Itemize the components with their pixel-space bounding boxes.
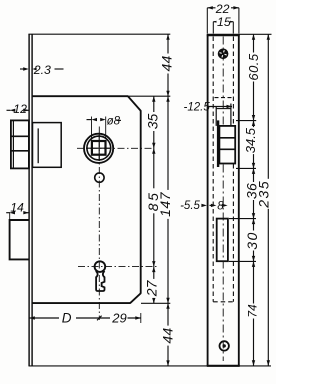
top extension line from faceplate top	[28, 33, 170, 35]
dimension 15 (case width)	[213, 15, 233, 34]
dimension 12 (latch protrusion)	[7, 102, 29, 116]
latch body box (front view)	[219, 126, 235, 164]
svg-text:74: 74	[246, 304, 260, 318]
latch pocket top shelf	[216, 108, 231, 110]
latch pocket left wall	[215, 106, 217, 126]
svg-text:30: 30	[244, 231, 260, 250]
svg-text:60.5: 60.5	[246, 53, 261, 81]
dimension column 35/85/27	[143, 96, 161, 303]
lock case bottom-right chamfer	[130, 293, 141, 303]
horizontal centerline through keyhole (dash-dot)	[78, 266, 157, 268]
dimension -12.5 (leader into plate)	[184, 102, 233, 114]
faceplate outer edge line	[28, 34, 30, 366]
dimension -5.5 and 8 (deadbolt position/width)	[180, 200, 228, 213]
bottom screw (ring with center)	[220, 341, 229, 350]
svg-text:27: 27	[143, 279, 159, 297]
spindle crosshair	[98, 134, 100, 161]
dimension column 44/147/44	[157, 34, 175, 366]
svg-text:22: 22	[215, 2, 230, 16]
extension line at deadbolt bottom (y 261.4)	[229, 260, 256, 262]
bottom long extension line across both views	[29, 365, 271, 367]
svg-text:15: 15	[217, 15, 231, 29]
svg-text:147: 147	[157, 191, 173, 217]
latch face bar (front view)	[217, 120, 219, 167]
latch pocket right wall	[230, 104, 232, 126]
dimension 235 (overall plate height)	[256, 34, 272, 366]
front plate right edge	[238, 34, 240, 366]
keyhole circle	[95, 261, 106, 272]
dashed case outline right	[232, 37, 234, 302]
dimension phi8 (square hole)	[87, 116, 122, 140]
svg-text:2.3: 2.3	[33, 63, 51, 77]
dashed case outline bottom	[213, 301, 233, 303]
dashed case outline left	[212, 37, 214, 302]
svg-text:35: 35	[145, 114, 161, 130]
front plate left edge	[207, 34, 209, 366]
front plate top edge	[207, 34, 240, 37]
dimension 22 (plate width)	[207, 1, 239, 34]
svg-text:34.5: 34.5	[243, 127, 258, 153]
latch bolt head divider 2	[11, 150, 29, 152]
lock case bottom edge	[32, 302, 131, 304]
svg-text:-5.5: -5.5	[180, 200, 200, 212]
latch bolt head divider 1	[11, 135, 29, 137]
latch housing inside case	[33, 123, 62, 168]
latch pocket dashed top	[215, 97, 233, 99]
latch bolt head (outside faceplate)	[11, 120, 29, 168]
dimension 14 (deadbolt protrusion)	[6, 201, 29, 220]
svg-text:D: D	[62, 311, 72, 326]
deadbolt head (outside faceplate, open right)	[10, 220, 29, 259]
dimension line D / 29 below case	[29, 309, 141, 326]
svg-text:44: 44	[159, 56, 175, 72]
top screw (filled with cross)	[218, 49, 229, 60]
dimension 2.3 (faceplate thickness)	[20, 63, 64, 77]
lock case top-right chamfer	[128, 96, 141, 111]
keyhole slot	[96, 271, 105, 291]
latch bolt head inner vertical line	[12, 120, 14, 168]
horizontal centerline through spindle (dash-dot)	[77, 147, 153, 149]
dimension column 60.5/34.5/36/30/74	[243, 34, 261, 366]
latch housing inner vertical line	[37, 128, 39, 163]
extension line at latch bottom (y 168.4)	[236, 167, 256, 169]
lock case right edge	[140, 110, 142, 294]
spindle hub outer circle	[84, 134, 113, 163]
latch body divider 1	[219, 137, 235, 139]
vertical centerline through spindle and keyhole (dash-dot)	[98, 127, 100, 321]
bottom extension line from case bottom	[141, 302, 170, 304]
plate vertical centerline dash-dot	[222, 37, 224, 362]
svg-text:29: 29	[111, 311, 126, 326]
svg-text:44: 44	[159, 328, 175, 344]
latch body divider 2	[219, 148, 235, 150]
spindle hub inner circle	[87, 136, 111, 160]
extension line at latch top (y 120.6)	[236, 120, 256, 122]
small circle below spindle	[95, 173, 104, 182]
extension line at deadbolt top (y 218.6)	[229, 218, 256, 220]
svg-text:-12.5: -12.5	[184, 102, 211, 114]
faceplate inner edge line	[31, 34, 33, 366]
svg-text:14: 14	[10, 201, 24, 215]
top extension line right view	[240, 33, 272, 35]
svg-text:12: 12	[13, 102, 27, 116]
spindle square hole	[92, 141, 106, 155]
svg-text:ø8: ø8	[107, 116, 121, 128]
front plate bottom edge	[207, 365, 240, 367]
svg-text:235: 235	[256, 180, 272, 209]
lock case top edge with extension	[32, 95, 170, 97]
deadbolt opening box (front view)	[217, 219, 228, 262]
